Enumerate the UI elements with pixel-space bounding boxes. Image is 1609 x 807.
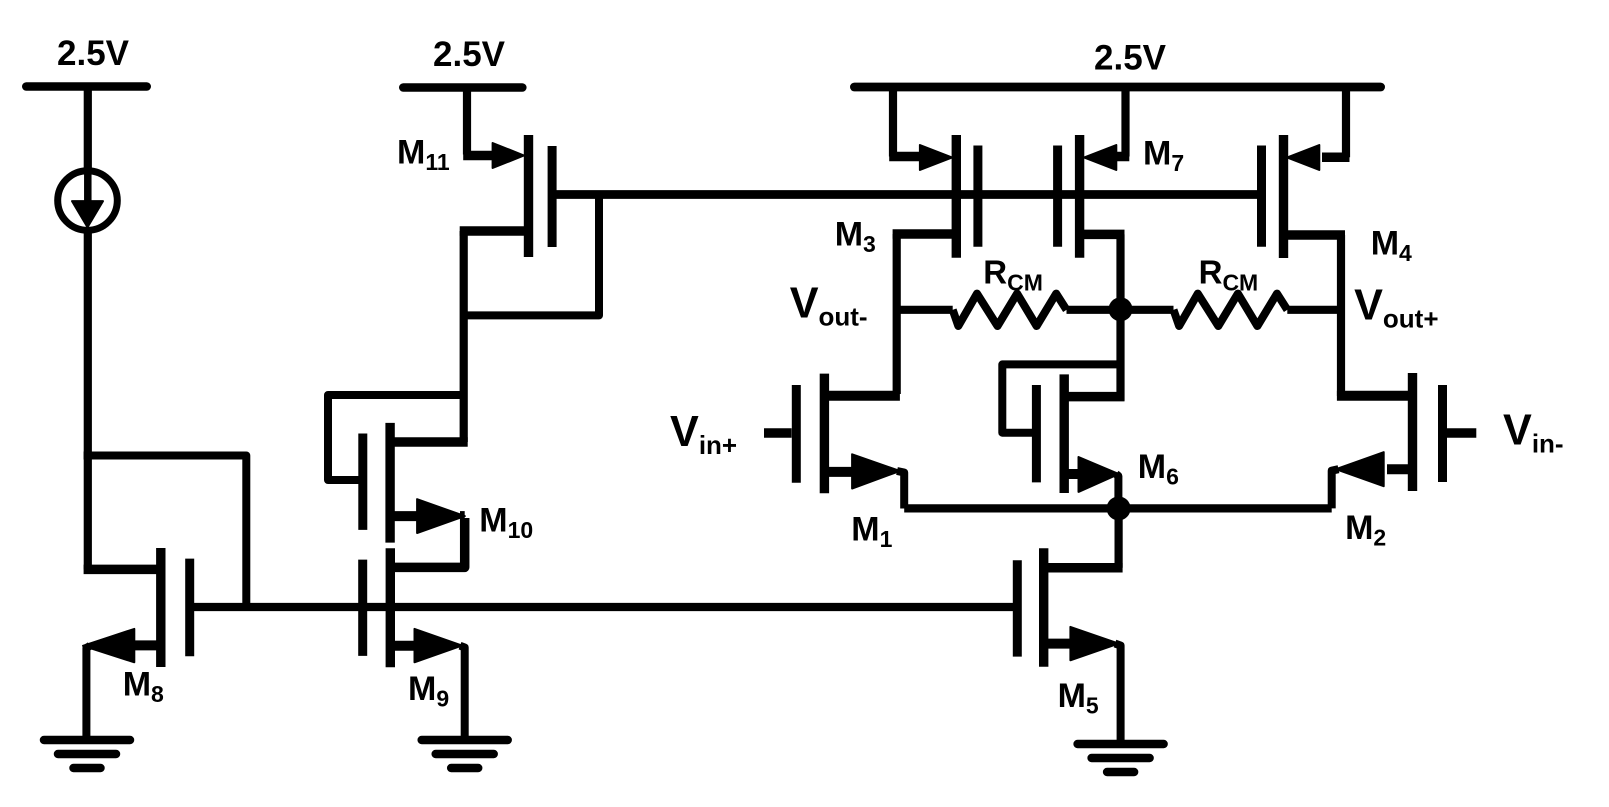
svg-text:2.5V: 2.5V [57, 34, 130, 73]
svg-text:2.5V: 2.5V [433, 35, 506, 74]
svg-text:2.5V: 2.5V [1094, 39, 1167, 78]
